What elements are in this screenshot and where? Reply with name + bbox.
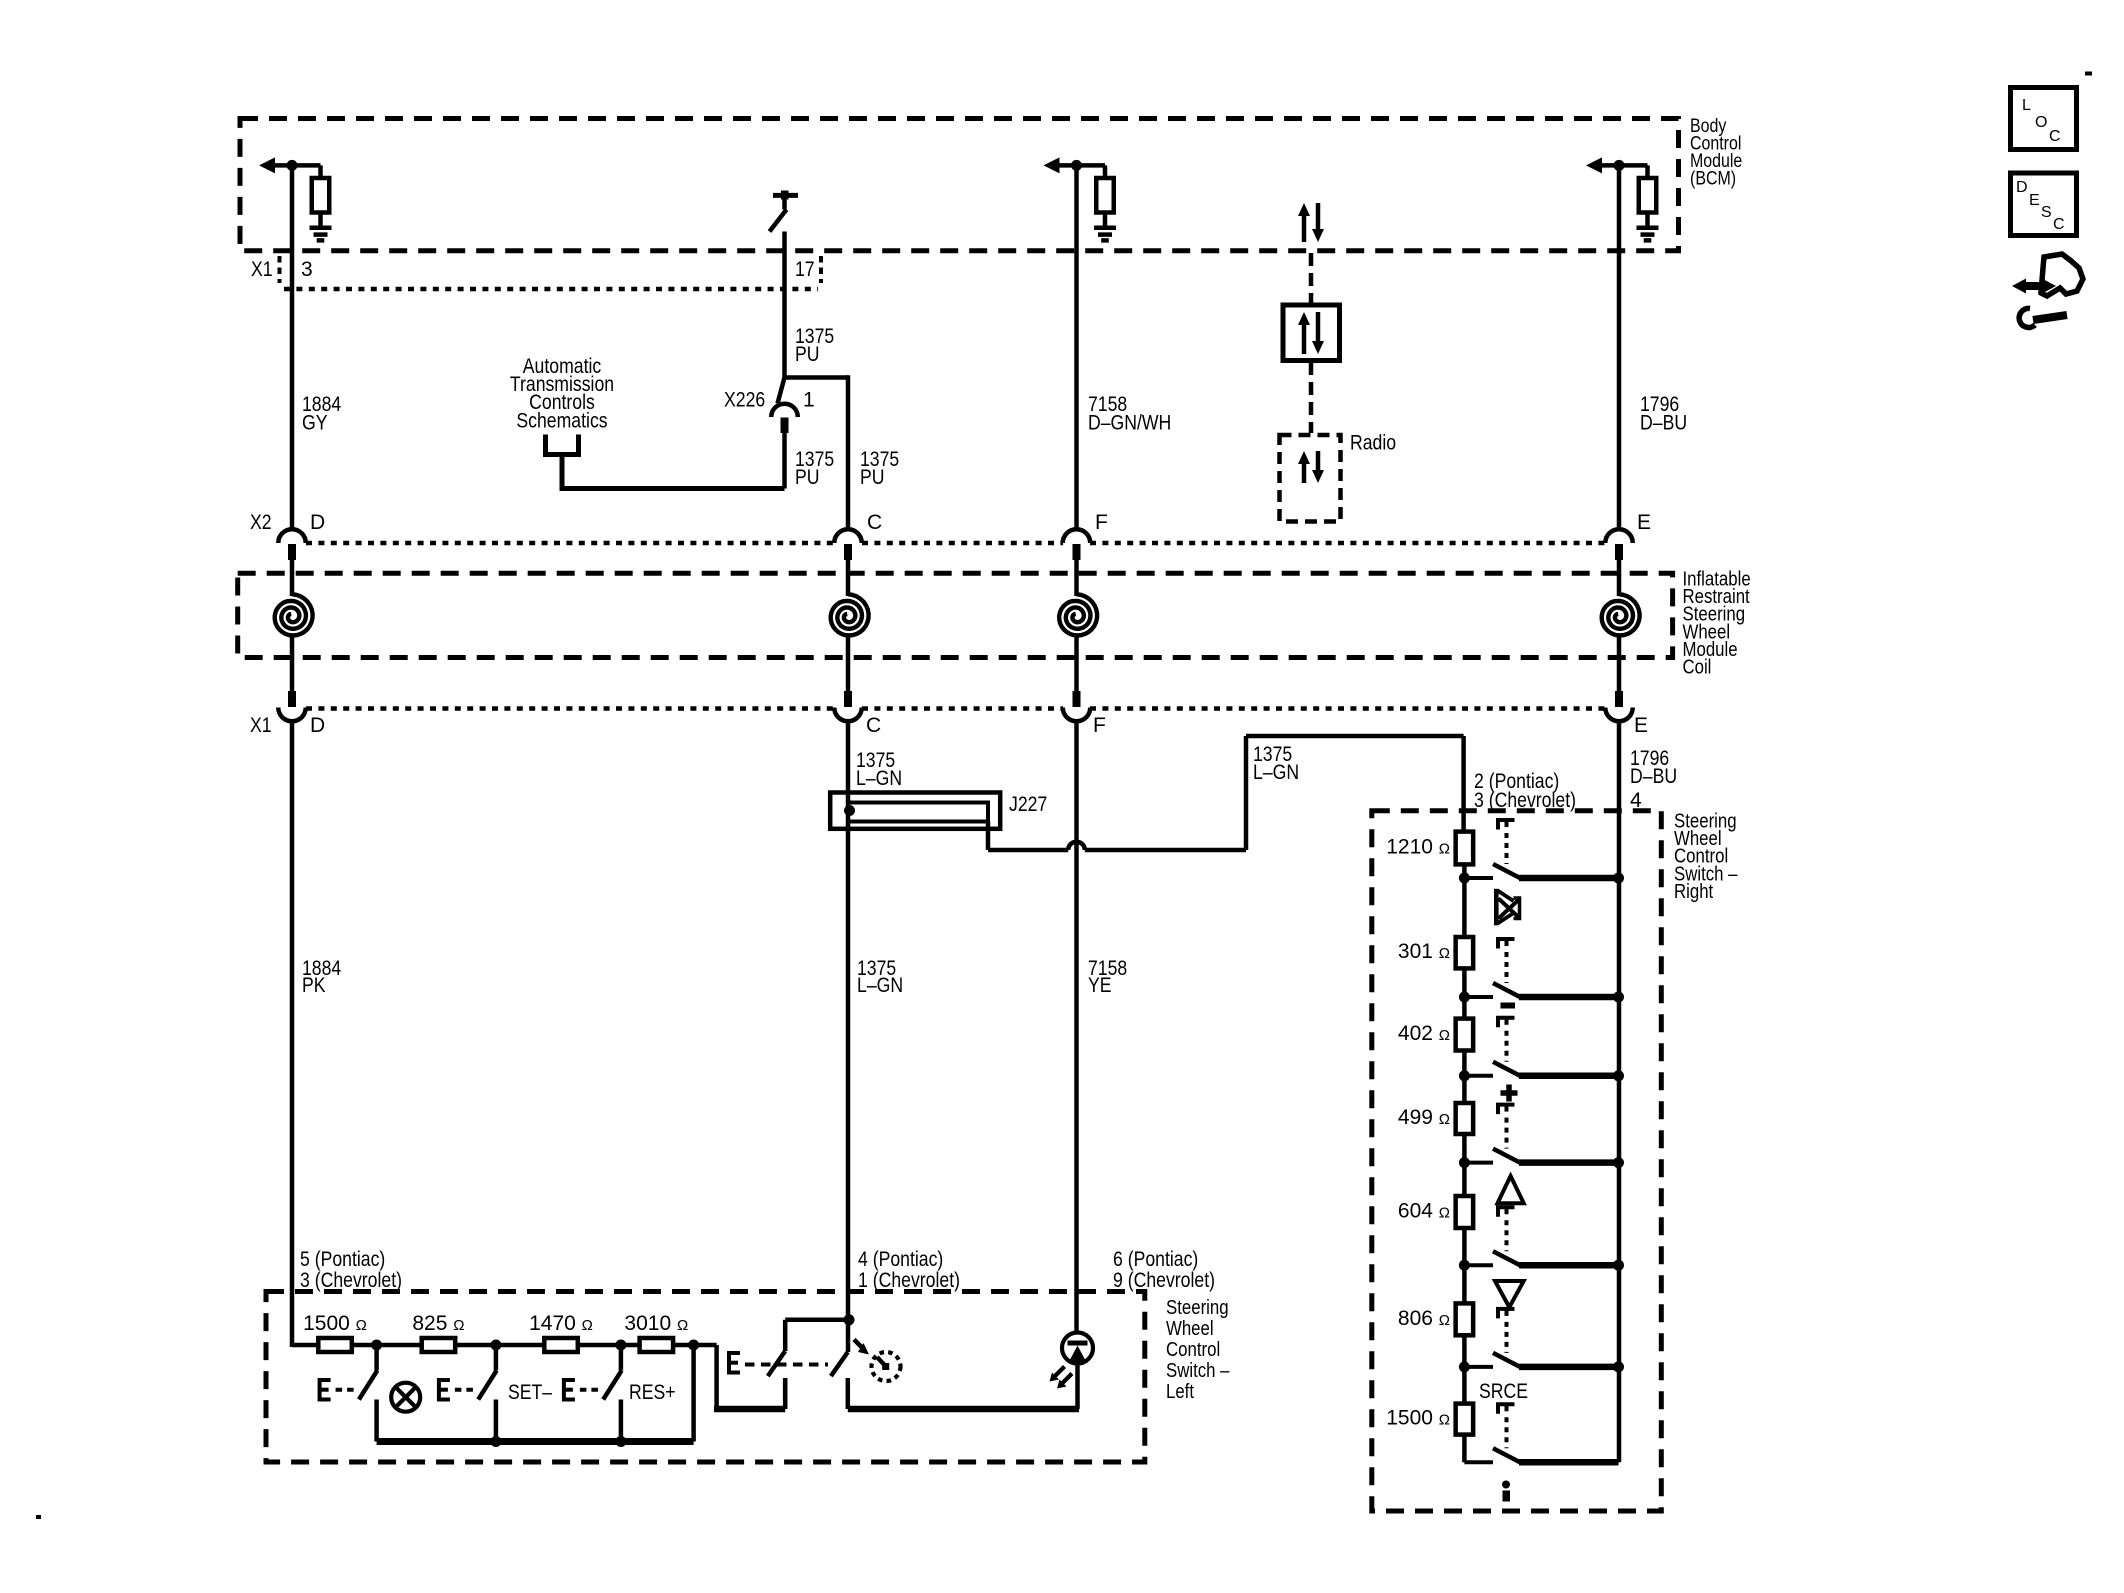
resistor 499 ohm [1456, 1103, 1474, 1134]
Inflatable Restraint Steering Wheel Module Coil dashed box [238, 573, 1673, 657]
Steering Wheel Control Switch - Right dashed box [1372, 811, 1662, 1511]
svg-text:C: C [2049, 128, 2061, 145]
svg-text:D: D [310, 714, 325, 737]
wire 1375 L-GN (J227 to right switch) [988, 736, 1464, 850]
in-line connector X226 pin 1 [771, 378, 798, 489]
cruise indicator LED [1062, 1333, 1093, 1410]
note: Automatic Transmission Controls Schematics [510, 355, 614, 432]
E bracket (cancel switch) [320, 1380, 357, 1400]
svg-text:S: S [2041, 204, 2052, 221]
resistor 825 ohm (cruise) [422, 1338, 456, 1352]
switch row 2 (right switch) [1464, 939, 1618, 997]
clockspring coil (column E) [1602, 558, 1640, 692]
svg-text:806 Ω: 806 Ω [1398, 1307, 1450, 1330]
connector X1 row (pins 3-17) dotted line [284, 287, 818, 292]
switch row 6 (right switch) [1464, 1309, 1618, 1367]
svg-text:L–GN: L–GN [857, 974, 903, 997]
junction dots row 2 [1459, 992, 1624, 1003]
svg-text:D–BU: D–BU [1630, 765, 1677, 788]
switch (BCM internal, pin X1-17) [770, 191, 799, 232]
ground (BCM pin X1-6) [1637, 228, 1659, 241]
svg-text:825 Ω: 825 Ω [412, 1312, 464, 1335]
svg-text:Right: Right [1674, 881, 1714, 903]
wire 7158 D-GN/WH (BCM pin 22 to coil connector F) [1074, 165, 1079, 530]
svg-text:6 (Pontiac): 6 (Pontiac) [1113, 1248, 1198, 1271]
serial data arrows (inside BCM) [1298, 203, 1324, 242]
wire 1796 D-BU (BCM pin 6 to coil connector E) [1617, 165, 1622, 530]
svg-text:Coil: Coil [1683, 657, 1712, 679]
svg-text:5 (Pontiac): 5 (Pontiac) [300, 1248, 385, 1271]
connector X1-F (lower half) [1063, 691, 1091, 721]
svg-text:3: 3 [301, 258, 313, 281]
cancel icon (circled X) [391, 1383, 420, 1412]
junction dot (on/off switch) [844, 1314, 855, 1325]
svg-text:C: C [866, 714, 881, 737]
svg-text:PU: PU [860, 466, 885, 489]
junction dot (J227) [844, 805, 855, 816]
svg-text:3 (Chevrolet): 3 (Chevrolet) [300, 1269, 402, 1292]
svg-text:17: 17 [795, 258, 815, 281]
page mark [2085, 72, 2092, 76]
svg-text:X2: X2 [250, 511, 272, 534]
junction dots row 4 [1459, 1157, 1624, 1168]
svg-text:D: D [310, 511, 325, 534]
speedometer icon (cruise) [872, 1352, 901, 1381]
svg-text:PU: PU [795, 343, 820, 366]
svg-text:Control: Control [1166, 1339, 1220, 1361]
resistor (BCM internal, pin X1-6) [1639, 165, 1657, 227]
seek up symbol [1498, 1176, 1524, 1203]
cancel switch [359, 1345, 377, 1442]
component view icon (car with arrow and wrench) [2012, 254, 2083, 327]
junction dots row 1 [1459, 873, 1624, 884]
resistor 1470 ohm (cruise) [544, 1338, 578, 1352]
svg-text:1500 Ω: 1500 Ω [303, 1312, 367, 1335]
gateway arrows [1298, 312, 1324, 354]
svg-text:L: L [2022, 97, 2031, 114]
note pointer bracket and wire [546, 435, 579, 455]
mute speaker icon [1494, 889, 1520, 926]
junction dot (BCM pin X1-6) [1614, 160, 1625, 171]
switch row 3 (right switch) [1464, 1018, 1618, 1076]
coil box label [1683, 569, 1751, 679]
junction dots row 3 [1459, 1070, 1624, 1081]
svg-text:1 (Chevrolet): 1 (Chevrolet) [858, 1269, 960, 1292]
svg-text:YE: YE [1088, 974, 1112, 997]
connector X2-F (upper half) [1063, 529, 1091, 560]
svg-text:O: O [2035, 114, 2047, 131]
svg-text:C: C [867, 511, 882, 534]
resistor 1210 ohm [1456, 832, 1474, 865]
svg-text:L–GN: L–GN [856, 767, 902, 790]
resistor ladder chain wire (right switch) [1462, 864, 1467, 1462]
switch row 1 (right switch) [1464, 820, 1618, 878]
cruise resistor rail wire [292, 1345, 785, 1409]
signal arrow (BCM pin X3-22) [1044, 157, 1106, 173]
right switch box label [1674, 811, 1738, 903]
switch row 7 (right switch) [1464, 1404, 1618, 1462]
svg-text:SET–: SET– [508, 1381, 552, 1404]
svg-text:E: E [1634, 714, 1648, 737]
svg-text:1: 1 [803, 389, 815, 412]
ground (BCM pin X3-22) [1094, 228, 1116, 241]
svg-text:SRCE: SRCE [1479, 1380, 1528, 1403]
wire 1375 L-GN (coil C down) [846, 721, 851, 1320]
connector X1 separator [278, 256, 282, 283]
E bracket (set switch) [439, 1380, 476, 1400]
connector X1-C (lower half) [834, 691, 862, 721]
svg-text:Left: Left [1166, 1381, 1194, 1403]
resistor 301 ohm [1456, 937, 1474, 968]
cruise on/off switch (two blades) [768, 1320, 849, 1409]
svg-text:RES+: RES+ [629, 1381, 676, 1404]
svg-text:D–GN/WH: D–GN/WH [1088, 412, 1171, 435]
svg-text:F: F [1095, 511, 1108, 534]
signal arrow (BCM pin X1-3) [259, 157, 321, 173]
junction dot (BCM pin X1-3) [287, 160, 298, 171]
svg-text:499 Ω: 499 Ω [1398, 1106, 1450, 1129]
LOC button [2011, 88, 2077, 150]
Steering Wheel Control Switch - Left dashed box [266, 1292, 1145, 1463]
junction dots (cruise rail) [371, 1340, 699, 1351]
resistor 402 ohm [1456, 1019, 1474, 1051]
speck [36, 1515, 41, 1519]
clockspring coil (column F) [1059, 558, 1097, 692]
svg-text:1470 Ω: 1470 Ω [529, 1312, 593, 1335]
set switch [478, 1345, 496, 1442]
lower rail (on/off to LED) [848, 1406, 1079, 1413]
svg-text:E: E [1637, 511, 1651, 534]
resistor 806 ohm [1456, 1303, 1474, 1335]
seek down symbol [1495, 1281, 1524, 1307]
wire 1884 GY (BCM pin 3 to coil connector D) [290, 165, 295, 530]
wire 7158 YE (coil F to left switch LED) [1074, 721, 1079, 1335]
connector X1-D (lower half) [278, 691, 306, 721]
left switch box label [1166, 1297, 1230, 1403]
resistor (BCM internal, pin X1-3) [312, 165, 330, 227]
connector row X1 dotted line [306, 706, 834, 711]
resistor 1500 ohm (cruise) [318, 1338, 352, 1352]
wire 1796 D-BU (coil E to right switch common) [1617, 721, 1622, 1463]
connector X2-E (upper half) [1605, 529, 1633, 560]
svg-text:402 Ω: 402 Ω [1398, 1022, 1450, 1045]
signal arrow (BCM pin X1-6) [1586, 157, 1648, 173]
resistor 3010 ohm (cruise) [640, 1338, 674, 1352]
Radio dashed box [1280, 435, 1341, 522]
svg-text:X1: X1 [250, 714, 272, 737]
cruise switch bottom bus [377, 1345, 694, 1442]
ground (BCM pin X1-3) [310, 228, 332, 241]
connector row X2 dotted line [306, 541, 834, 546]
svg-text:301 Ω: 301 Ω [1398, 940, 1450, 963]
svg-text:Steering: Steering [1166, 1297, 1229, 1319]
E bracket (on/off switch) [729, 1353, 828, 1373]
svg-text:C: C [2053, 216, 2065, 233]
svg-text:Schematics: Schematics [516, 409, 607, 432]
volume plus symbol [1501, 1085, 1518, 1102]
junction dots row 5 [1459, 1260, 1624, 1271]
svg-text:D–BU: D–BU [1640, 412, 1687, 435]
svg-text:GY: GY [302, 412, 328, 435]
svg-text:X1: X1 [251, 258, 273, 281]
wire 1884 PK (coil D to left switch) [290, 721, 295, 1348]
cruise engage arrow [854, 1340, 869, 1355]
volume minus symbol [1501, 1003, 1516, 1009]
connector X2-D (upper half) [278, 529, 306, 560]
Radio arrows [1298, 451, 1324, 483]
svg-text:9 (Chevrolet): 9 (Chevrolet) [1113, 1269, 1215, 1292]
switch row 4 (right switch) [1464, 1105, 1618, 1163]
svg-text:Radio: Radio [1350, 432, 1396, 455]
wire 1375 PU (BCM pin 17) [785, 232, 849, 531]
junction dots (bottom bus) [490, 1436, 626, 1447]
connector X1-E (lower half) [1605, 691, 1633, 721]
splice J227 [830, 793, 1000, 829]
svg-text:L–GN: L–GN [1253, 761, 1299, 784]
E bracket (resume switch) [564, 1380, 601, 1400]
info icon [1502, 1481, 1510, 1502]
junction dot (BCM pin X3-22) [1071, 160, 1082, 171]
svg-text:F: F [1093, 714, 1106, 737]
DESC button [2011, 173, 2077, 236]
clockspring coil (column C) [831, 558, 869, 692]
Body Control Module (BCM) dashed box [240, 119, 1679, 251]
svg-text:E: E [2029, 192, 2040, 209]
LED emission arrows [1050, 1367, 1073, 1389]
svg-text:1210 Ω: 1210 Ω [1386, 836, 1450, 859]
resume switch [603, 1345, 621, 1442]
resistor 604 ohm [1456, 1196, 1474, 1228]
svg-text:604 Ω: 604 Ω [1398, 1200, 1450, 1223]
junction dots row 6 [1459, 1361, 1624, 1372]
clockspring coil (column D) [275, 558, 313, 692]
connector X1 separator [819, 256, 823, 283]
svg-text:4 (Pontiac): 4 (Pontiac) [858, 1248, 943, 1271]
svg-text:(BCM): (BCM) [1690, 169, 1736, 190]
svg-text:1500 Ω: 1500 Ω [1386, 1407, 1450, 1430]
svg-text:PK: PK [302, 974, 326, 997]
resistor (BCM internal, pin X3-22) [1096, 165, 1114, 227]
svg-text:Switch –: Switch – [1166, 1360, 1230, 1382]
switch row 5 (right switch) [1464, 1207, 1618, 1265]
svg-text:X226: X226 [724, 389, 765, 412]
svg-text:D: D [2016, 179, 2028, 196]
dashed serial data wire (BCM to gateway) [1309, 253, 1314, 303]
serial data gateway box [1283, 305, 1340, 361]
dashed serial data wire (gateway to Radio) [1309, 362, 1314, 433]
connector X2-C (upper half) [834, 529, 862, 560]
svg-text:3010 Ω: 3010 Ω [624, 1312, 688, 1335]
svg-text:J227: J227 [1009, 793, 1047, 816]
svg-text:PU: PU [795, 466, 820, 489]
svg-text:Wheel: Wheel [1166, 1318, 1214, 1340]
resistor 1500 ohm [1456, 1404, 1474, 1435]
